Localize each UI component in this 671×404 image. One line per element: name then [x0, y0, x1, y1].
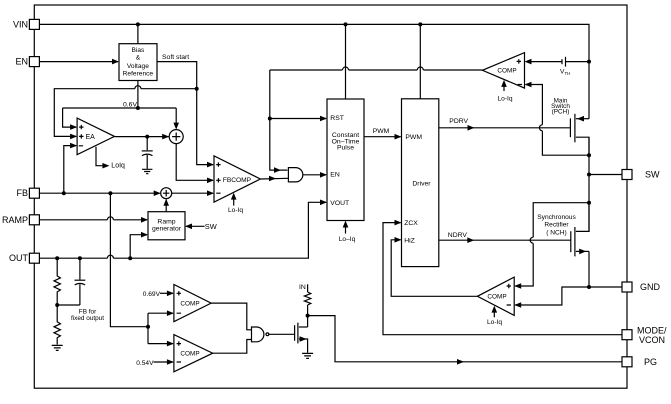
svg-text:(PCH): (PCH) [552, 109, 570, 116]
wire 0.69V reference [160, 292, 173, 294]
svg-text:TH: TH [565, 71, 571, 76]
wire on-time box supply [345, 24, 347, 99]
bias and voltage reference block [119, 44, 157, 81]
wire soft start node [157, 62, 213, 165]
comparator zero cross COMP [477, 277, 514, 315]
svg-text:Rectifier: Rectifier [544, 222, 569, 229]
wire IN pull-up stub [307, 284, 309, 292]
svg-text:MODE/: MODE/ [637, 326, 667, 336]
svg-text:FB: FB [16, 188, 28, 198]
svg-text:EA: EA [86, 134, 96, 141]
svg-text:IN: IN [299, 284, 306, 291]
wire zero-cross inverting sense to GND node [515, 287, 589, 305]
pin EN [15, 57, 39, 67]
svg-text:Voltage: Voltage [127, 63, 149, 70]
pin MODE/VCON [622, 326, 667, 346]
wire EA output [115, 136, 169, 138]
constant on-time pulse block [327, 99, 364, 221]
svg-text:Ramp: Ramp [157, 219, 175, 226]
svg-text:Lo-Iq: Lo-Iq [487, 319, 502, 326]
svg-text:COMP: COMP [180, 351, 199, 358]
comparator PG lower COMP [174, 335, 213, 372]
svg-text:Bias: Bias [131, 47, 145, 54]
wire summing node 1 to FBCOMP [176, 144, 213, 181]
wire VIN rail [39, 24, 589, 118]
wire EA inverting input from FB [64, 146, 76, 194]
svg-text:( NCH): ( NCH) [546, 229, 567, 236]
arrow EA LoIq bias [96, 147, 125, 170]
wire hop sense over NDRV [530, 237, 533, 243]
svg-text:EN: EN [15, 57, 28, 67]
arrow on-time Lo-Iq bias [339, 221, 356, 244]
wire zero-cross comparator output to HiZ [391, 240, 477, 296]
wire current limit inverting sense [526, 85, 589, 156]
svg-text:Reference: Reference [123, 70, 154, 77]
svg-text:Soft start: Soft start [162, 54, 189, 61]
pin SW [622, 170, 660, 180]
resistor R2 feedback divider bottom [54, 305, 60, 345]
comparator current limit COMP [482, 53, 524, 89]
svg-text:0.6V: 0.6V [123, 101, 137, 108]
ramp generator block [148, 212, 185, 240]
svg-text:Lo-Iq: Lo-Iq [228, 207, 243, 214]
pin VIN [13, 19, 39, 29]
svg-text:RST: RST [330, 115, 344, 122]
svg-text:ZCX: ZCX [404, 220, 418, 227]
wire PDRV [439, 127, 571, 129]
wire NAND output to transistor gate [269, 333, 295, 335]
pin OUT [9, 253, 39, 263]
wire PG drain net to PG pin [308, 316, 622, 362]
driver block [402, 99, 439, 267]
arrow zero cross COMP Lo-Iq bias [487, 306, 502, 326]
svg-text:COMP: COMP [180, 301, 199, 308]
ground below Q3 [302, 353, 313, 358]
svg-text:fixed output: fixed output [71, 315, 104, 322]
svg-text:PWM: PWM [405, 134, 422, 141]
transistor Q3 power good NCH [295, 323, 308, 353]
wire NDRV [439, 239, 571, 241]
wire ramp generator output [165, 200, 167, 212]
svg-text:SW: SW [205, 222, 217, 231]
svg-text:SW: SW [645, 170, 660, 180]
summing node 2 [161, 188, 172, 199]
svg-text:Lo-Iq: Lo-Iq [497, 96, 512, 103]
and-gate U1 [288, 168, 302, 182]
svg-text:OUT: OUT [9, 253, 29, 263]
svg-text:EN: EN [330, 172, 340, 179]
ground below EA capacitor [142, 169, 152, 173]
arrowheads [70, 59, 531, 365]
pin GND [622, 282, 661, 292]
wire bottom PG comparator output [213, 340, 252, 354]
svg-text:VIN: VIN [13, 19, 28, 29]
svg-text:GND: GND [640, 282, 661, 292]
wire SW to ramp generator [186, 225, 205, 227]
wire 0.6V node [63, 108, 177, 127]
wire comparator feed node [148, 313, 173, 343]
wire hop over bias vertical [135, 86, 141, 89]
pin PG [622, 357, 657, 367]
wire current limit comparator output to AND and RST [270, 70, 483, 170]
wire bias bottom [137, 81, 139, 109]
svg-text:PDRV: PDRV [449, 118, 468, 125]
wire MODE/VCON to ZCX [383, 223, 622, 335]
ground below divider [52, 345, 63, 350]
svg-text:0.69V: 0.69V [143, 291, 161, 298]
wire hop OUT over FB vertical [107, 255, 113, 258]
wire driver box supply [419, 24, 421, 98]
comparator FBCOMP [214, 156, 260, 202]
wire SW pin [589, 174, 622, 176]
arrow current limit COMP Lo-Iq bias [497, 80, 512, 103]
capacitor C1 feedforward [57, 258, 85, 305]
svg-text:PWM: PWM [373, 128, 390, 135]
wire bias top to VIN [137, 24, 139, 43]
summing node 1 [169, 130, 183, 144]
wire FB line [39, 192, 159, 194]
svg-text:Lo–Iq: Lo–Iq [339, 236, 356, 243]
svg-text:HiZ: HiZ [404, 237, 415, 244]
svg-text:FBCOMP: FBCOMP [223, 177, 252, 184]
svg-text:NDRV: NDRV [448, 232, 468, 239]
wire AND output to EN input [303, 174, 326, 176]
svg-text:Pulse: Pulse [337, 145, 354, 152]
wire 0.54V reference [154, 361, 173, 363]
wire PWM [364, 136, 401, 138]
wire OUT line to VOUT [39, 202, 326, 258]
wire VTH battery to comparator [527, 61, 589, 63]
pin RAMP [2, 215, 39, 225]
svg-text:PG: PG [644, 357, 657, 367]
wire drain sense to zero-cross comparator [515, 203, 589, 286]
svg-text:COMP: COMP [497, 67, 516, 74]
wire EN to bias [39, 61, 118, 63]
svg-text:Driver: Driver [412, 181, 431, 188]
resistor R1 feedback divider top [54, 258, 60, 305]
resistor R3 IN pull-up [304, 292, 310, 305]
svg-text:VOUT: VOUT [330, 200, 349, 207]
svg-text:RAMP: RAMP [2, 215, 28, 225]
wire RST input [270, 118, 326, 120]
svg-text:0.54V: 0.54V [136, 360, 154, 367]
nand-gate U2 [252, 327, 269, 342]
arrow FBCOMP Lo-Iq bias [228, 193, 243, 215]
wire FB sense vertical to comparators [110, 193, 148, 327]
label FB for fixed output [71, 309, 104, 322]
svg-text:generator: generator [152, 226, 182, 233]
transistor Q2 synchronous rectifier NCH [537, 203, 589, 257]
op-amp EA error amplifier [77, 118, 114, 155]
svg-text:COMP: COMP [487, 293, 506, 300]
wire SW rail [588, 137, 590, 231]
node junction dots [55, 22, 591, 328]
wire hop over on-time vertical [343, 67, 349, 70]
wire hop over driver vertical [417, 67, 423, 70]
transistor Q1 main switch PCH [551, 98, 589, 156]
svg-text:VCON: VCON [639, 335, 665, 345]
wire resistor to drain node [307, 305, 309, 327]
wire top PG comparator output [211, 303, 251, 330]
svg-text:&: & [136, 54, 141, 61]
wire hop sense over PDRV [539, 125, 542, 131]
pin FB [16, 188, 39, 198]
svg-text:Synchronous: Synchronous [537, 214, 576, 221]
wire OUT to ramp generator input [130, 235, 147, 259]
comparator PG upper COMP [174, 285, 211, 322]
wire soft start branch to EA input [54, 89, 196, 137]
svg-text:LoIq: LoIq [111, 162, 125, 169]
wire summing node 2 to FBCOMP [172, 192, 213, 194]
wire FBCOMP output to AND [260, 177, 288, 180]
wire hop RAMP over FB vertical [107, 217, 113, 220]
capacitor on EA output [142, 137, 153, 169]
wire GND pin [589, 251, 622, 287]
battery VTH [560, 57, 570, 76]
wire RAMP to ramp generator [39, 219, 147, 221]
